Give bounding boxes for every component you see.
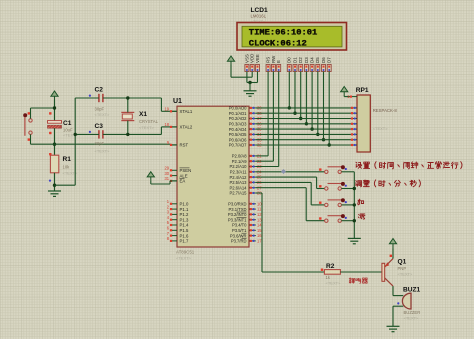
svg-text:D6: D6	[321, 57, 326, 63]
LCD pin E (6)	[276, 60, 281, 72]
svg-text:P0.6/AD6: P0.6/AD6	[229, 137, 247, 142]
wire P2.6 to button 4	[256, 187, 306, 189]
svg-text:VDD: VDD	[250, 54, 255, 63]
wire button 1 to common	[341, 171, 354, 173]
wire to LCD ground	[249, 83, 251, 91]
button SW4	[319, 214, 347, 222]
svg-text:ALE: ALE	[180, 173, 188, 178]
node: junction button/VCC	[53, 106, 56, 109]
pin P3.1/TXD (11)	[229, 207, 262, 212]
wire RST node to RST pin	[55, 143, 171, 145]
svg-text:D7: D7	[327, 57, 332, 63]
svg-text:D1: D1	[292, 57, 297, 63]
pin XTAL2 (18)	[164, 122, 192, 130]
pin P1.4 (5)	[167, 220, 189, 228]
op: MCU body U1	[177, 106, 249, 247]
svg-text:R1: R1	[63, 156, 72, 163]
node D5/P0.5	[316, 133, 319, 136]
node D7/P0.7	[328, 143, 331, 146]
wire buttons common vertical	[353, 172, 355, 239]
power VCC arrow (Q1)	[389, 239, 396, 249]
svg-text:30pF: 30pF	[95, 107, 105, 112]
svg-text:C2: C2	[95, 87, 104, 94]
wire RS to P2.0	[267, 72, 269, 156]
pin P0.6/AD6 (33)	[229, 137, 263, 142]
wire caps common to ground	[74, 98, 76, 185]
LCD pin VSS (1)	[244, 54, 249, 71]
button SW1	[319, 165, 347, 173]
wire power to RP1 pin1	[343, 95, 345, 97]
svg-text:P3.1/TXD: P3.1/TXD	[229, 207, 247, 212]
pin P3.2/INT0 (12)	[228, 212, 262, 217]
svg-text:C1: C1	[63, 120, 72, 127]
crystal X1	[121, 112, 134, 120]
pin XTAL1 (19)	[164, 107, 192, 115]
node button common	[353, 203, 356, 206]
node crystal top	[126, 96, 129, 99]
wire P0.7 bus to RP1 pin 9	[256, 144, 351, 146]
svg-text:<TEXT>: <TEXT>	[95, 112, 111, 117]
node D2/P0.2	[299, 117, 302, 120]
pin P0.0/AD0 (39)	[229, 106, 263, 111]
wire C2 left	[75, 97, 99, 99]
LCD pin D7 (14)	[327, 57, 332, 72]
svg-text:X1: X1	[139, 111, 147, 118]
svg-text:P3.4/T0: P3.4/T0	[232, 223, 247, 228]
svg-text:30pF: 30pF	[95, 141, 105, 146]
LCD pin D4 (11)	[310, 57, 315, 72]
pin P1.0 (1)	[167, 199, 189, 207]
buzzer BUZ1	[397, 293, 411, 309]
RP1 pin 2	[351, 107, 357, 109]
svg-text:P2.3/A11: P2.3/A11	[230, 170, 247, 175]
wire EA to power	[150, 180, 152, 184]
wire VSS down	[246, 72, 248, 83]
wire VSS-VEE tie	[247, 82, 258, 84]
wire P2.3 to button 1	[256, 171, 325, 173]
pin P2.7/A15 (28)	[229, 191, 262, 196]
wire Q1 collector to BUZ1	[392, 286, 394, 296]
wire crystal top	[127, 98, 129, 112]
RP1 pin 9	[351, 144, 357, 146]
pin P1.6 (7)	[167, 231, 189, 239]
pin P2.2/A10 (23)	[229, 164, 262, 169]
button SW3	[319, 198, 347, 206]
LCD pin D2 (9)	[298, 57, 303, 72]
LCD pin D3 (10)	[304, 57, 309, 72]
power VCC arrow (reset)	[51, 91, 58, 100]
svg-text:P3.3/INT1: P3.3/INT1	[228, 217, 247, 222]
svg-text:CRYSTAL: CRYSTAL	[139, 119, 159, 124]
pin P0.3/AD3 (36)	[229, 121, 263, 126]
svg-text:P2.2/A10: P2.2/A10	[229, 164, 247, 169]
svg-text:RST: RST	[180, 143, 189, 148]
wire button top to VCC node	[30, 108, 32, 119]
ground (buzzer)	[387, 326, 400, 331]
svg-text:P0.2/AD2: P0.2/AD2	[229, 116, 247, 121]
button SW2	[319, 182, 347, 190]
pin P2.1/A9 (22)	[232, 159, 263, 164]
svg-text:P0.4/AD4: P0.4/AD4	[229, 127, 247, 132]
node: RST junction	[53, 143, 56, 146]
LCD pin RW (5)	[271, 55, 276, 72]
svg-text:<TEXT>: <TEXT>	[398, 272, 414, 277]
pin P2.6/A14 (27)	[229, 185, 262, 190]
svg-text:RESPACK-8: RESPACK-8	[373, 108, 398, 113]
node C3/common	[74, 133, 77, 136]
wire RW to P2.1	[272, 72, 274, 162]
svg-text:P1.4: P1.4	[180, 223, 189, 228]
svg-text:PSEN: PSEN	[180, 168, 192, 173]
LCD LCD1 body	[237, 23, 347, 51]
pin P3.3/INT1 (13)	[228, 217, 262, 222]
pin P2.0/A8 (21)	[232, 154, 263, 159]
svg-text:<TEXT>: <TEXT>	[373, 126, 389, 131]
RP1 pin 8	[351, 139, 357, 141]
wire button 4 to common	[341, 220, 354, 222]
svg-text:<TEXT>: <TEXT>	[326, 281, 342, 286]
svg-text:P3.0/RXD: P3.0/RXD	[228, 202, 246, 207]
LCD pin D0 (7)	[287, 57, 292, 72]
wire R2 to Q1 base	[340, 271, 382, 273]
pin P1.1 (2)	[167, 204, 189, 212]
svg-text:P3.2/INT0: P3.2/INT0	[228, 212, 247, 217]
svg-text:P2.7/A15: P2.7/A15	[229, 191, 247, 196]
svg-text:RP1: RP1	[356, 87, 369, 94]
capacitor C2	[99, 94, 103, 102]
wire D4 to P0.4	[311, 72, 313, 130]
ground (reset)	[48, 191, 61, 196]
svg-text:VSS: VSS	[244, 54, 249, 63]
svg-text:CLOCK:06:12: CLOCK:06:12	[249, 40, 307, 49]
wire button 3 to common	[341, 204, 354, 206]
svg-text:PNP: PNP	[398, 266, 407, 271]
svg-text:P1.0: P1.0	[180, 202, 189, 207]
svg-text:D3: D3	[304, 57, 309, 63]
svg-text:BUZZER: BUZZER	[404, 310, 421, 315]
resistor R2	[324, 270, 340, 275]
power VCC arrow (LCD VDD)	[227, 56, 234, 65]
wire C3 left	[75, 133, 99, 135]
pin P3.6/WR (16)	[230, 233, 262, 238]
power VCC arrow (EA)	[147, 172, 154, 181]
label chinese shezhi	[356, 161, 462, 168]
svg-text:P1.7: P1.7	[180, 239, 189, 244]
wire P0.5 bus to RP1 pin 7	[256, 133, 351, 135]
power VCC arrow (RP1)	[341, 87, 348, 96]
svg-text:Q1: Q1	[398, 258, 407, 265]
pin P1.3 (4)	[167, 215, 189, 223]
RP1 pin 1	[351, 96, 357, 98]
node VSS/VEE gnd	[248, 81, 251, 84]
node D1/P0.1	[293, 112, 296, 115]
pin P1.2 (3)	[167, 210, 189, 218]
LCD pin D6 (13)	[321, 57, 326, 72]
svg-text:P2.6/A14: P2.6/A14	[229, 185, 247, 190]
pin RST (9)	[167, 140, 189, 148]
svg-text:U1: U1	[173, 98, 182, 105]
LCD pin RS (4)	[266, 57, 271, 72]
svg-text:P0.0/AD0: P0.0/AD0	[229, 106, 247, 111]
svg-text:P0.3/AD3: P0.3/AD3	[229, 122, 247, 127]
svg-text:RW: RW	[271, 55, 276, 63]
svg-text:BUZ1: BUZ1	[403, 287, 421, 294]
pin P1.5 (6)	[167, 226, 189, 234]
wire C3 right to XTAL2	[103, 133, 161, 135]
wire D7 to P0.7	[328, 72, 330, 146]
label chinese jian	[358, 214, 365, 219]
wire D3 to P0.3	[305, 72, 307, 124]
svg-text:10k: 10k	[63, 165, 71, 170]
svg-text:AT89C51: AT89C51	[176, 250, 195, 255]
wire P0.0 bus to RP1 pin 2	[256, 107, 351, 109]
svg-text:P1.5: P1.5	[180, 228, 189, 233]
wire P0.6 bus to RP1 pin 8	[256, 139, 351, 141]
node button common	[353, 219, 356, 222]
svg-text:31: 31	[164, 176, 169, 181]
wire D6 to P0.6	[323, 72, 325, 140]
node D6/P0.6	[322, 138, 325, 141]
pin P0.2/AD2 (37)	[229, 116, 263, 121]
pin P3.4/T0 (14)	[232, 223, 262, 228]
svg-text:D2: D2	[298, 57, 303, 63]
capacitor C1	[48, 112, 62, 134]
svg-text:RS: RS	[266, 57, 271, 63]
svg-text:P1.2: P1.2	[180, 212, 189, 217]
wire C1 to R1	[54, 128, 56, 155]
ground (LCD)	[244, 91, 257, 96]
LCD pin D1 (8)	[292, 57, 297, 72]
pin P3.5/T1 (15)	[232, 228, 262, 233]
svg-text:P0.7/AD7: P0.7/AD7	[229, 143, 247, 148]
wire button 2 to common	[341, 188, 354, 190]
transistor Q1	[382, 259, 393, 287]
svg-text:P1.3: P1.3	[180, 217, 189, 222]
pin EA (31)	[164, 176, 185, 184]
svg-text:11: 11	[257, 207, 262, 212]
LCD pin D5 (12)	[315, 57, 320, 72]
svg-text:19: 19	[164, 107, 169, 112]
pin P2.4/A12 (25)	[229, 175, 262, 180]
wire D1 to P0.1	[294, 72, 296, 114]
RP1 pin 3	[351, 112, 357, 114]
wire D0 to P0.0	[288, 72, 290, 108]
svg-text:P3.5/T1: P3.5/T1	[232, 228, 247, 233]
wire E to P2.2	[278, 72, 280, 167]
svg-text:29: 29	[164, 166, 169, 171]
svg-text:D0: D0	[287, 57, 292, 63]
svg-text:P0.5/AD5: P0.5/AD5	[229, 132, 247, 137]
label chinese tiaozheng	[356, 180, 421, 187]
LCD pin VDD (2)	[250, 54, 255, 72]
svg-text:C3: C3	[95, 123, 104, 130]
svg-text:P2.5/A13: P2.5/A13	[229, 180, 247, 185]
LCD pin VEE (3)	[255, 54, 260, 71]
pin P2.3/A11 (24)	[230, 169, 263, 174]
svg-text:E: E	[276, 60, 281, 63]
wire P2.4 to button 2	[256, 176, 317, 178]
resistor-pack RP1 body	[357, 95, 370, 152]
node crystal bottom	[126, 133, 129, 136]
svg-text:D4: D4	[310, 57, 315, 63]
wire Q1 emitter to power	[392, 249, 394, 259]
wire D2 to P0.2	[300, 72, 302, 119]
svg-text:R2: R2	[326, 263, 335, 270]
svg-text:P1.6: P1.6	[180, 233, 189, 238]
wire crystal bottom	[127, 121, 129, 135]
pin P0.1/AD1 (38)	[229, 111, 263, 116]
RP1 pin 7	[351, 133, 357, 135]
node marker grey	[281, 169, 286, 174]
svg-text:XTAL1: XTAL1	[180, 109, 193, 114]
resistor R1	[50, 155, 58, 173]
svg-text:LM016L: LM016L	[251, 14, 267, 19]
svg-text:P2.4/A12: P2.4/A12	[229, 175, 247, 180]
wire VDD to power	[230, 65, 232, 78]
svg-text:P3.7/RD: P3.7/RD	[231, 239, 247, 244]
pin P0.4/AD4 (35)	[229, 127, 263, 132]
capacitor C3	[99, 130, 103, 138]
pin P1.7 (8)	[167, 236, 189, 244]
wire P2.7 to R2	[256, 192, 262, 194]
label chinese jia	[358, 199, 364, 205]
svg-text:EA: EA	[180, 179, 186, 184]
pin P3.0/RXD (10)	[228, 201, 262, 206]
wire C2 right to XTAL1	[103, 97, 161, 99]
wire power to C1	[54, 100, 56, 122]
pin P2.5/A13 (26)	[229, 180, 262, 185]
wire D5 to P0.5	[317, 72, 319, 135]
button SW-reset	[23, 112, 32, 141]
wire P2.5 to button 3	[256, 181, 311, 183]
svg-text:<TEXT>: <TEXT>	[176, 256, 192, 261]
svg-text:P2.1/A9: P2.1/A9	[232, 159, 247, 164]
node button common	[353, 187, 356, 190]
RP1 pin 6	[351, 128, 357, 130]
svg-text:P0.1/AD1: P0.1/AD1	[229, 111, 247, 116]
svg-text:P3.6/WR: P3.6/WR	[230, 233, 247, 238]
wire R1 to ground	[54, 173, 56, 191]
svg-text:TIME:06:10:01: TIME:06:10:01	[249, 29, 318, 38]
node D3/P0.3	[305, 122, 308, 125]
pin P0.7/AD7 (32)	[229, 143, 263, 148]
wire P0.1 bus to RP1 pin 3	[256, 112, 351, 114]
wire button bottom to RST node	[30, 134, 32, 144]
svg-text:<TEXT>: <TEXT>	[139, 125, 155, 130]
wire P0.3 bus to RP1 pin 5	[256, 123, 351, 125]
svg-text:XTAL2: XTAL2	[180, 125, 193, 130]
svg-text:<TEXT>: <TEXT>	[95, 148, 111, 153]
label chinese fengmingqi	[349, 278, 367, 284]
node D4/P0.4	[310, 127, 313, 130]
pin P0.5/AD5 (34)	[229, 132, 263, 137]
svg-text:P1.1: P1.1	[180, 207, 189, 212]
svg-text:18: 18	[164, 122, 169, 127]
wire BUZ1 to ground	[393, 305, 403, 307]
pin P3.7/RD (17)	[231, 239, 262, 244]
node D0/P0.0	[288, 106, 291, 109]
svg-text:30: 30	[164, 171, 169, 176]
wire P0.4 bus to RP1 pin 6	[256, 128, 351, 130]
RP1 pin 4	[351, 118, 357, 120]
wire P0.2 bus to RP1 pin 4	[256, 118, 351, 120]
ground (buttons)	[348, 238, 361, 243]
svg-text:P2.0/A8: P2.0/A8	[232, 154, 247, 159]
pin ALE (30)	[164, 171, 187, 179]
wire VEE down	[257, 72, 259, 83]
LCD screen	[242, 26, 342, 47]
svg-text:D5: D5	[315, 57, 320, 63]
svg-text:<TEXT>: <TEXT>	[404, 316, 420, 321]
pin PSEN (29)	[164, 166, 191, 174]
RP1 pin 5	[351, 123, 357, 125]
node: gnd junction	[53, 184, 56, 187]
svg-text:VEE: VEE	[255, 54, 260, 63]
